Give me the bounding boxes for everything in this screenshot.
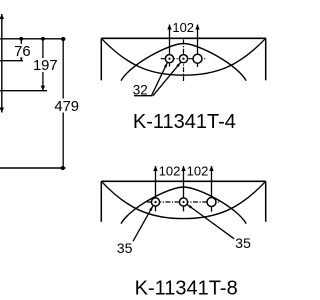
white knockout behind label 479 <box>53 99 81 113</box>
bowl rim arc <box>121 187 246 224</box>
white knockout behind label 76 <box>13 44 32 58</box>
hole c1 (T-4) <box>165 55 173 63</box>
dimension line 102 middle (T-8) <box>183 166 185 211</box>
dimension line 102 left (T-4) <box>169 25 171 67</box>
basin right edge <box>265 38 267 80</box>
white knockout behind label 197 <box>32 58 59 72</box>
dimension line (cropped value) with up and down arrows <box>1 14 3 113</box>
extension line for 76 <box>0 60 23 62</box>
svg-text:76: 76 <box>14 44 30 60</box>
svg-text:102: 102 <box>159 164 181 179</box>
leader to hole c2 (T-8) <box>187 205 234 239</box>
center dot c1 <box>168 58 170 60</box>
dimension dot at bottom of 479 line <box>61 166 65 170</box>
svg-text:K-11341T-8: K-11341T-8 <box>135 278 238 300</box>
sagging apron curve corner-to-corner <box>101 38 265 75</box>
vertical centerline through middle hole (T-4) <box>183 40 185 82</box>
dimension line 76 <box>20 39 22 61</box>
dimension line 197 <box>42 39 44 91</box>
leader to hole c1 <box>152 63 168 96</box>
svg-text:32: 32 <box>133 82 148 97</box>
hole c2 (T-4) <box>179 55 187 63</box>
svg-text:35: 35 <box>117 241 133 257</box>
dimension line 479 <box>62 39 64 168</box>
dimension line 102 left (T-8) <box>155 166 157 211</box>
center dot c2 <box>182 58 184 60</box>
hole c2 (T-8) <box>179 198 187 206</box>
svg-text:35: 35 <box>235 236 251 252</box>
leader to hole c2 <box>153 62 181 95</box>
hole c3 (T-4) <box>193 54 202 63</box>
extension line for 197 <box>0 90 47 92</box>
bottom extension line <box>0 167 66 169</box>
basin right edge <box>265 181 267 222</box>
horizontal centerline through holes (T-4) <box>161 58 207 60</box>
basin left edge <box>100 181 102 222</box>
svg-text:102: 102 <box>187 164 209 179</box>
dimension line 102 right (T-4) <box>197 25 199 67</box>
leader underline for 32 <box>134 95 153 97</box>
dimension line 102 right (T-8) <box>211 166 213 212</box>
svg-text:197: 197 <box>33 58 58 74</box>
dimension dot at top of 76 line <box>19 37 23 41</box>
leader to hole c1 (T-8) <box>133 206 153 241</box>
svg-text:102: 102 <box>172 20 194 35</box>
horizontal centerline through holes (T-8) <box>147 201 221 203</box>
basin top edge <box>101 180 265 182</box>
center dot c1 (T-8) <box>154 201 156 203</box>
svg-text:479: 479 <box>54 99 79 115</box>
sagging apron curve corner-to-corner <box>101 181 265 218</box>
hole c1 (T-8) <box>151 198 159 206</box>
basin left edge <box>100 38 102 80</box>
bowl rim arc <box>121 44 246 81</box>
svg-text:K-11341T-4: K-11341T-4 <box>133 111 236 133</box>
basin top edge <box>101 37 265 39</box>
dimension dot at top of 197 line <box>41 37 45 41</box>
dimension dot at top of 479 line <box>61 37 65 41</box>
hole c3 (T-8) <box>207 198 216 207</box>
extension line top <box>0 38 66 40</box>
center dot c2 (T-8) <box>182 201 184 203</box>
